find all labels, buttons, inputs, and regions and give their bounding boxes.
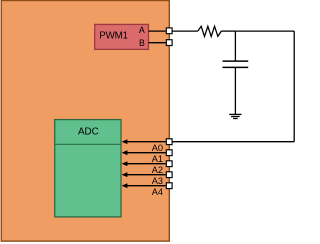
ADC label bbox=[78, 127, 99, 138]
wire right rail vertical bbox=[293, 31, 295, 142]
svg-text:A3: A3 bbox=[152, 176, 163, 186]
svg-text:ADC: ADC bbox=[78, 127, 99, 138]
capacitor bbox=[223, 31, 249, 114]
port pin square A bbox=[166, 28, 172, 34]
PWM1 pin A label bbox=[139, 25, 145, 35]
svg-text:A4: A4 bbox=[152, 187, 163, 197]
pin label A0 bbox=[152, 143, 163, 153]
svg-text:A: A bbox=[139, 25, 145, 35]
port pin square A0 bbox=[166, 139, 172, 145]
PWM1 pin B label bbox=[139, 38, 145, 48]
svg-text:A0: A0 bbox=[152, 143, 163, 153]
wire arrow into ADC input A2 bbox=[122, 161, 166, 166]
MCU block bbox=[1, 1, 169, 242]
wire arrow into ADC input A1 bbox=[122, 150, 166, 155]
svg-text:A2: A2 bbox=[152, 165, 163, 175]
port pin square A1 bbox=[166, 150, 172, 156]
wire port pin A to resistor bbox=[172, 30, 198, 32]
wire arrow into ADC input A3 bbox=[122, 172, 166, 177]
wire arrow into ADC input A4 bbox=[122, 183, 166, 188]
wire PWM1.B to port pin B bbox=[149, 42, 166, 44]
PWM1 label bbox=[99, 30, 127, 41]
pin label A4 bbox=[152, 187, 163, 197]
PWM peripheral PWM1 bbox=[95, 24, 149, 49]
port pin square A2 bbox=[166, 161, 172, 167]
svg-text:A1: A1 bbox=[152, 154, 163, 164]
svg-text:PWM1: PWM1 bbox=[99, 30, 127, 41]
ground bbox=[229, 114, 241, 118]
wire right rail to ADC port A0 bbox=[172, 141, 294, 143]
svg-text:B: B bbox=[139, 38, 145, 48]
pin label A1 bbox=[152, 154, 163, 164]
ADC header separator bbox=[55, 143, 121, 145]
port pin square B bbox=[166, 40, 172, 46]
wire arrow into ADC input A0 bbox=[122, 139, 166, 144]
wire PWM1.A to port pin A bbox=[149, 30, 166, 32]
resistor (RC filter series element) bbox=[198, 26, 221, 36]
port pin square A4 bbox=[166, 183, 172, 189]
port pin square A3 bbox=[166, 172, 172, 178]
pin label A3 bbox=[152, 176, 163, 186]
wire resistor to capacitor node bbox=[221, 30, 235, 32]
pin label A2 bbox=[152, 165, 163, 175]
wire capacitor node to right rail bbox=[235, 30, 294, 32]
ADC module bbox=[55, 120, 121, 217]
